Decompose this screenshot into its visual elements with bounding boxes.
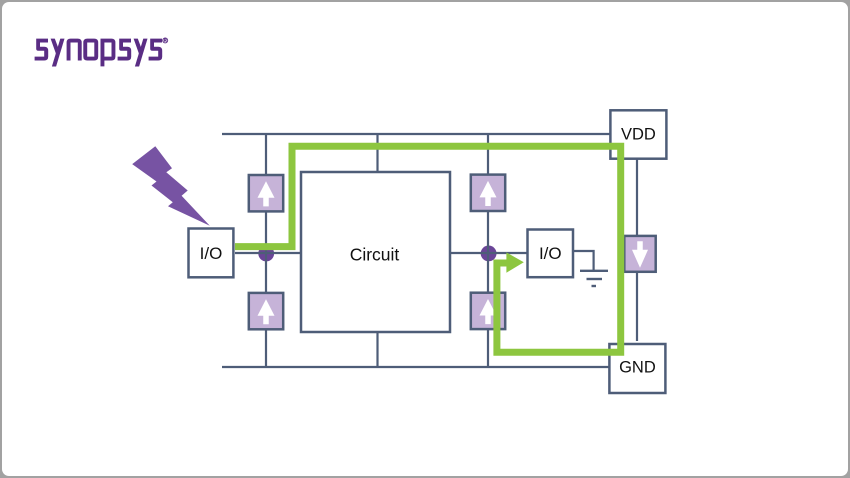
diode D1 upper-left bbox=[249, 175, 283, 211]
GND box bbox=[609, 344, 665, 393]
ground symbol bbox=[580, 271, 608, 286]
diode D2 lower-left bbox=[249, 293, 283, 329]
left I/O box bbox=[189, 229, 234, 278]
wire: right column (output net vertical) bbox=[487, 134, 489, 367]
VDD box bbox=[610, 110, 666, 158]
svg-text:I/O: I/O bbox=[200, 244, 223, 263]
wire: circuit top to VDD rail bbox=[376, 134, 378, 172]
power clamp between VDD and GND bbox=[624, 236, 655, 272]
wire: VDD to clamp to GND bbox=[636, 159, 638, 341]
ESD current path (green) bbox=[235, 146, 621, 352]
svg-text:Circuit: Circuit bbox=[350, 245, 400, 265]
wire: right I/O to ground bbox=[573, 251, 594, 270]
diode D4 lower-right bbox=[471, 293, 505, 329]
wire: GND bottom rail bbox=[222, 366, 610, 368]
ESD path arrowhead into right I/O bbox=[506, 252, 523, 272]
wire: Circuit to right I/O bbox=[450, 252, 527, 254]
svg-text:VDD: VDD bbox=[621, 126, 656, 144]
wire: VDD top rail bbox=[222, 133, 612, 135]
ESD lightning bolt bbox=[132, 146, 210, 226]
svg-text:I/O: I/O bbox=[539, 244, 562, 263]
wire: left I/O to Circuit bbox=[235, 252, 301, 254]
svg-text:GND: GND bbox=[619, 359, 656, 377]
node B: right I/O junction bbox=[481, 246, 497, 262]
wire: circuit bottom to GND rail bbox=[376, 332, 378, 367]
node A: left I/O junction bbox=[258, 246, 274, 262]
wire: left column (I/O net vertical) bbox=[265, 134, 267, 367]
Synopsys logo bbox=[0, 0, 190, 80]
Circuit box bbox=[301, 172, 450, 332]
diode D3 upper-right bbox=[471, 175, 505, 211]
right I/O box bbox=[528, 230, 574, 278]
